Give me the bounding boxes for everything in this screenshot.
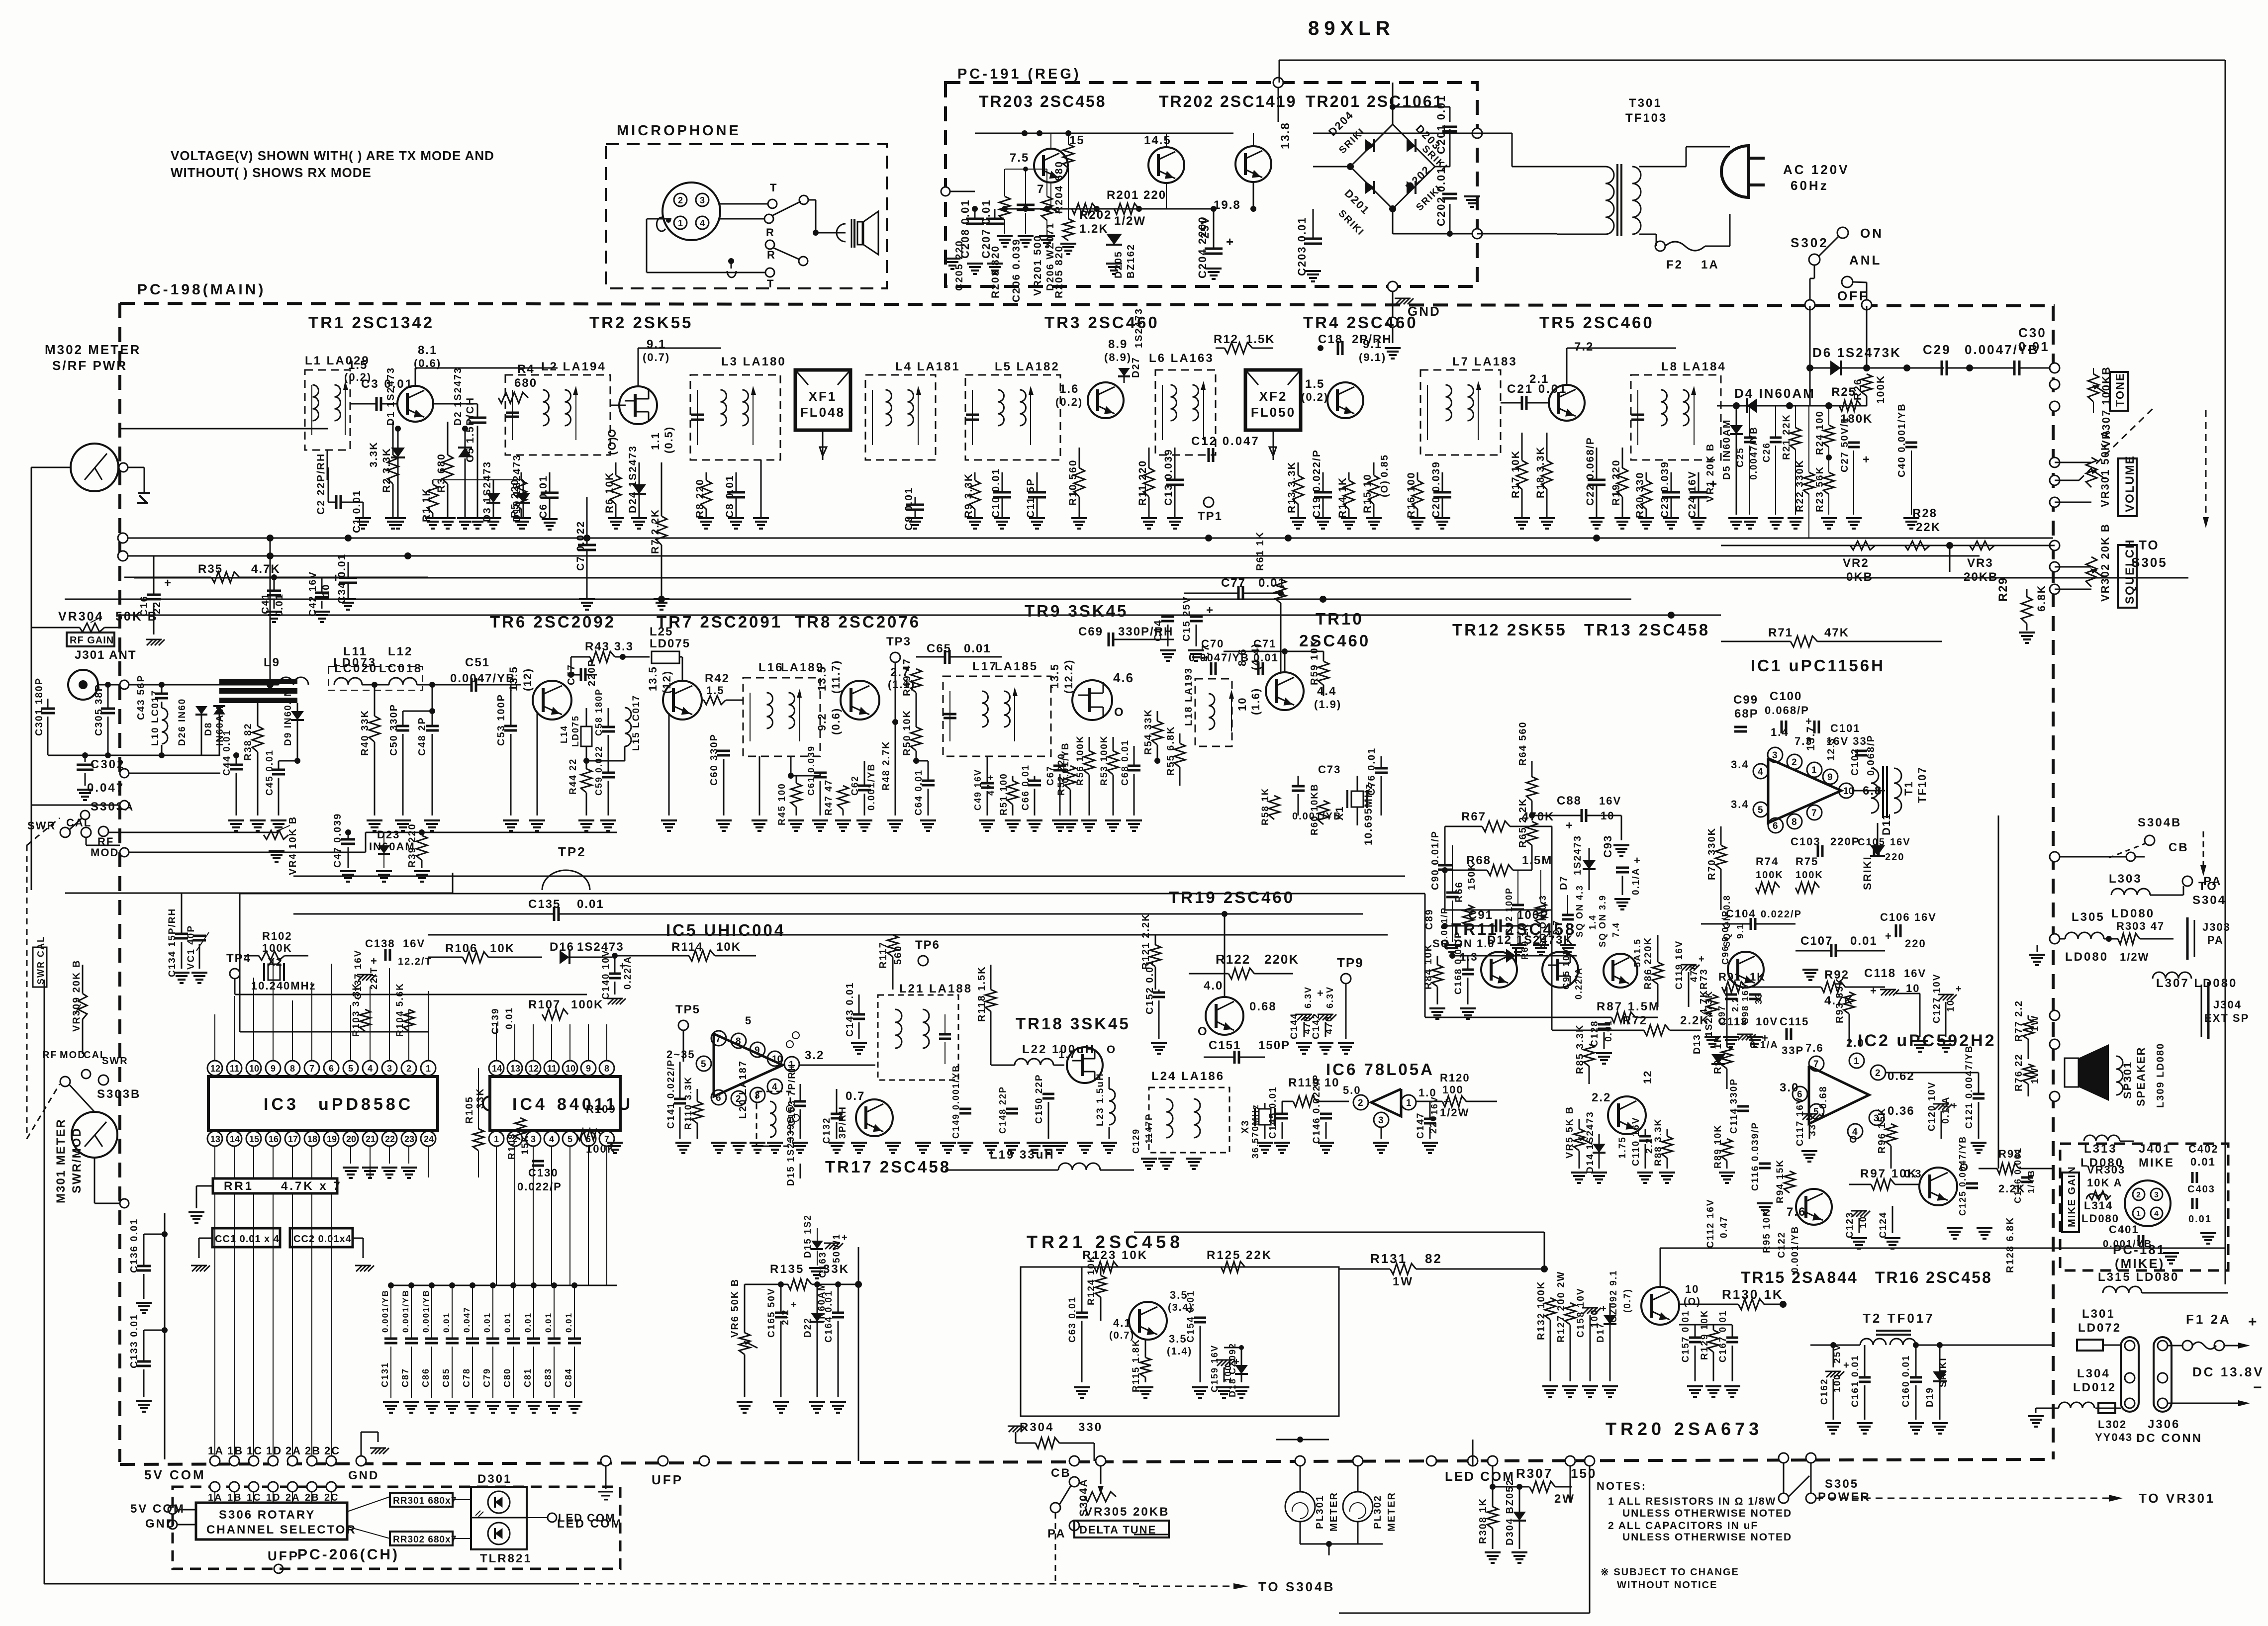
ground [774, 1143, 776, 1144]
svg-text:C51: C51 [465, 656, 490, 669]
svg-text:C2 22P/RH: C2 22P/RH [315, 453, 327, 515]
svg-text:SP301: SP301 [2121, 1061, 2134, 1099]
svg-text:C107: C107 [1800, 934, 1833, 948]
svg-text:MIKE: MIKE [2139, 1156, 2174, 1170]
svg-text:3: 3 [387, 1064, 392, 1074]
ic3 pin 6 [324, 1061, 339, 1076]
svg-text:84011U: 84011U [557, 1095, 633, 1114]
svg-text:1A: 1A [1701, 258, 1719, 271]
capacitor C87 0.001/YB [408, 1282, 414, 1288]
svg-text:J301 ANT: J301 ANT [75, 648, 137, 662]
svg-text:7: 7 [309, 1064, 314, 1074]
wire S303A rail [36, 467, 37, 805]
svg-text:36.570MHz: 36.570MHz [1250, 1104, 1260, 1159]
svg-text:TR10: TR10 [1316, 610, 1364, 628]
resistor R2 3.3K [392, 422, 394, 455]
jack J304 EXT SP [2207, 982, 2210, 1039]
capacitor C1 0.01 [363, 502, 364, 518]
svg-text:1S2473: 1S2473 [1572, 835, 1583, 875]
svg-text:C61 0.039: C61 0.039 [806, 745, 816, 796]
svg-text:R23 56K: R23 56K [1814, 466, 1825, 512]
svg-text:L314: L314 [2084, 1199, 2113, 1212]
svg-text:PA: PA [2203, 875, 2222, 888]
svg-text:C102: C102 [1850, 748, 1861, 776]
svg-text:7: 7 [1811, 808, 1817, 818]
svg-text:IC6 78L05A: IC6 78L05A [1326, 1060, 1434, 1079]
svg-text:+: + [2248, 1314, 2259, 1330]
ic4 pin 1 [489, 1131, 504, 1146]
svg-text:R44 22: R44 22 [568, 758, 578, 795]
svg-text:7.5: 7.5 [1010, 151, 1029, 165]
svg-text:L14: L14 [559, 725, 569, 743]
resistor R11 220 [1148, 448, 1150, 468]
svg-text:(MIKE): (MIKE) [2115, 1256, 2165, 1271]
wire antenna rail [120, 428, 328, 430]
svg-text:16V: 16V [1429, 1096, 1439, 1115]
svg-text:0.01: 0.01 [1258, 576, 1286, 590]
svg-text:PL301: PL301 [1315, 1495, 1325, 1529]
connector J306 b [2154, 1337, 2172, 1412]
svg-text:C63 0.01: C63 0.01 [1067, 1296, 1078, 1343]
svg-text:TP3: TP3 [886, 635, 911, 648]
wire R70 [1721, 826, 1746, 827]
test point TP1 [1204, 497, 1214, 507]
svg-text:J303: J303 [2202, 921, 2231, 933]
ic3 pin 22 [382, 1131, 397, 1146]
svg-text:5: 5 [745, 1014, 752, 1027]
svg-text:ANL: ANL [1849, 253, 1882, 268]
svg-text:R115 1.8K: R115 1.8K [1131, 1339, 1141, 1392]
svg-text:C58 180P: C58 180P [594, 688, 604, 736]
svg-text:TR5 2SC460: TR5 2SC460 [1539, 313, 1654, 332]
ic3 pin 9 [266, 1061, 281, 1076]
svg-text:R16 100: R16 100 [1406, 472, 1417, 518]
svg-text:S304: S304 [2192, 894, 2226, 907]
transistor TR14 [1608, 1096, 1646, 1134]
svg-text:C133 0.01: C133 0.01 [129, 1314, 140, 1368]
svg-text:C125 0.0047/YB: C125 0.0047/YB [1958, 1136, 1968, 1216]
svg-text:0.001/YB: 0.001/YB [1790, 1226, 1800, 1273]
svg-text:CB: CB [1051, 1466, 1071, 1480]
ic3 pin 3 [382, 1061, 397, 1076]
svg-text:D26 IN60: D26 IN60 [177, 698, 188, 746]
svg-text:S302: S302 [1791, 235, 1829, 250]
svg-text:S304A: S304A [1077, 1478, 1090, 1517]
svg-text:0.01: 0.01 [503, 1312, 512, 1333]
svg-text:C159 16V: C159 16V [1210, 1345, 1220, 1392]
svg-text:uPD858C: uPD858C [318, 1095, 413, 1114]
svg-text:R93 33K: R93 33K [1834, 977, 1845, 1023]
svg-text:22: 22 [385, 1134, 395, 1144]
bypass capacitor row C131..C84 [391, 1285, 617, 1286]
grounds tr16 [1954, 1228, 1956, 1229]
wire band3 rail 2 [240, 893, 1425, 895]
svg-text:C67: C67 [1045, 765, 1056, 786]
svg-text:4.6: 4.6 [1113, 670, 1134, 685]
svg-text:L19 33uH: L19 33uH [990, 1148, 1055, 1162]
ic1 pin 5 [1753, 802, 1768, 817]
svg-text:33K: 33K [475, 1087, 486, 1109]
svg-text:0.1/A: 0.1/A [1631, 868, 1641, 895]
svg-text:R49 47: R49 47 [902, 658, 913, 697]
svg-text:R6 10K: R6 10K [604, 472, 615, 513]
ground [1034, 1143, 1036, 1144]
svg-text:2A: 2A [285, 1445, 301, 1457]
svg-text:5: 5 [348, 1064, 353, 1074]
svg-text:+: + [332, 571, 341, 585]
grounds mike [2208, 1233, 2209, 1234]
svg-text:0.01: 0.01 [544, 1312, 553, 1333]
svg-text:(9.1): (9.1) [1359, 351, 1386, 363]
svg-text:SWR CAL: SWR CAL [36, 936, 46, 985]
svg-text:XF2: XF2 [1259, 389, 1288, 404]
crystal X1 [1351, 791, 1363, 807]
svg-text:D15 1S2: D15 1S2 [803, 1214, 813, 1258]
transistor TR17 [856, 1099, 893, 1136]
svg-text:1.4: 1.4 [1771, 726, 1789, 738]
svg-text:VR5 5K B: VR5 5K B [1564, 1106, 1575, 1159]
svg-text:7: 7 [1813, 1059, 1819, 1070]
svg-text:TF107: TF107 [1916, 766, 1928, 803]
wire meter M301 [94, 1158, 95, 1203]
svg-text:R38 82: R38 82 [243, 723, 254, 761]
svg-text:3.4: 3.4 [1731, 758, 1749, 771]
bus wire 4 [134, 577, 2188, 579]
svg-text:T: T [770, 181, 777, 194]
ic4 pin 4 [544, 1131, 559, 1146]
ic1 pin 10 [1839, 783, 1854, 798]
wire bottom rails [1472, 1440, 1474, 1466]
wire TR202 emitter [1166, 183, 1167, 209]
node lamps [1295, 1456, 1305, 1466]
svg-text:+: + [1885, 930, 1893, 942]
svg-text:2: 2 [678, 195, 683, 205]
node ledcom [1426, 1456, 1436, 1466]
svg-text:AC 120V: AC 120V [1783, 162, 1850, 177]
svg-text:LD012: LD012 [2073, 1381, 2116, 1394]
svg-text:MICROPHONE: MICROPHONE [617, 123, 741, 139]
svg-text:C76 0.01: C76 0.01 [1366, 747, 1377, 796]
ic3 pin 14 [227, 1131, 242, 1146]
svg-text:0.0047/YB: 0.0047/YB [450, 672, 515, 685]
svg-text:C163: C163 [818, 1252, 828, 1278]
svg-text:L305: L305 [2072, 910, 2105, 924]
svg-text:RR302 680x7: RR302 680x7 [393, 1535, 457, 1545]
svg-text:R114: R114 [671, 940, 703, 954]
ground [836, 1143, 838, 1144]
bus wire 1 [128, 538, 2053, 539]
svg-text:D9 IN60AM: D9 IN60AM [283, 688, 293, 746]
ic5 triangle [714, 1034, 783, 1096]
resistor R17 10K [1521, 433, 1523, 460]
wire left column [164, 1213, 166, 1459]
svg-text:L15 LC017: L15 LC017 [631, 695, 642, 751]
ic4 pin 11 [544, 1061, 559, 1076]
svg-text:S304B: S304B [2138, 816, 2181, 829]
svg-text:(0.2): (0.2) [1055, 396, 1083, 408]
svg-text:C149 0.001/YB: C149 0.001/YB [951, 1065, 961, 1139]
svg-text:220K: 220K [1264, 952, 1299, 967]
ic5 pin 7 [711, 1031, 726, 1046]
svg-text:LD080: LD080 [2111, 907, 2155, 920]
svg-text:LD080: LD080 [2065, 950, 2108, 964]
wire TR201 collector [1253, 133, 1254, 146]
wire s304b [2055, 856, 2145, 858]
svg-text:R104 5.6K: R104 5.6K [395, 983, 405, 1037]
sq transistor Q1 [1481, 952, 1517, 988]
ic3 pin 4 [363, 1061, 378, 1076]
svg-text:C162: C162 [1819, 1378, 1830, 1405]
svg-text:MIKE GAIN: MIKE GAIN [2067, 1166, 2078, 1227]
svg-text:PC-198(MAIN): PC-198(MAIN) [137, 281, 266, 298]
svg-text:12.2/T: 12.2/T [398, 956, 432, 967]
svg-text:C203 0.01: C203 0.01 [1296, 216, 1308, 276]
svg-text:L315 LD080: L315 LD080 [2098, 1270, 2179, 1284]
svg-text:19: 19 [327, 1134, 337, 1144]
svg-text:9.2: 9.2 [816, 713, 828, 731]
filter XF1 [795, 370, 850, 430]
svg-text:(0.7): (0.7) [1622, 1288, 1633, 1313]
antenna jack J301 [68, 670, 98, 700]
svg-text:(8.9): (8.9) [1104, 351, 1132, 363]
svg-text:DC 13.8V: DC 13.8V [2192, 1364, 2265, 1379]
svg-text:0.01: 0.01 [964, 642, 991, 655]
svg-text:R10 560: R10 560 [1067, 459, 1079, 506]
svg-text:47K: 47K [1824, 626, 1849, 639]
svg-text:0.01: 0.01 [577, 898, 604, 911]
svg-text:25V: 25V [1199, 216, 1211, 239]
svg-text:4.7K x 7: 4.7K x 7 [281, 1179, 342, 1193]
bus wire 3 [65, 599, 1631, 600]
svg-text:METER: METER [1386, 1492, 1397, 1532]
svg-text:3: 3 [2154, 1191, 2159, 1199]
label DELTA TUNE [1074, 1521, 1169, 1537]
wire to speaker [816, 232, 846, 234]
ic3 pin 1 [421, 1061, 436, 1076]
ic3 pin 5 [343, 1061, 358, 1076]
wire TR203 collector [1050, 133, 1051, 149]
svg-text:(1.9): (1.9) [1314, 698, 1341, 711]
svg-text:R: R [766, 226, 775, 239]
capacitor C22 0.068/P [1596, 448, 1598, 480]
svg-text:R204 680: R204 680 [1053, 161, 1065, 214]
svg-text:R3 680: R3 680 [436, 453, 447, 493]
svg-text:R12: R12 [1214, 333, 1238, 346]
svg-text:10: 10 [1685, 1283, 1699, 1295]
resistor R3 680 [447, 422, 449, 455]
ground C202 [1472, 196, 1473, 197]
svg-text:C305 38P: C305 38P [94, 684, 104, 736]
svg-text:TR1 2SC1342: TR1 2SC1342 [308, 313, 434, 332]
svg-text:TP2: TP2 [558, 844, 586, 859]
ic2 pin 2 [1871, 1065, 1886, 1080]
ic2 pin 5 [1809, 1104, 1824, 1119]
svg-text:C30: C30 [2018, 325, 2047, 340]
svg-text:1.2K: 1.2K [1079, 222, 1109, 236]
svg-text:1: 1 [678, 218, 683, 228]
wire reg top rail [975, 133, 1233, 134]
svg-text:PA: PA [1047, 1527, 1066, 1540]
svg-text:UNLESS OTHERWISE NOTED: UNLESS OTHERWISE NOTED [1622, 1532, 1792, 1543]
svg-text:C142: C142 [1311, 1013, 1322, 1039]
svg-text:C10 0.01: C10 0.01 [990, 468, 1002, 518]
svg-text:3.2: 3.2 [805, 1049, 824, 1062]
svg-text:TONE: TONE [2114, 372, 2126, 407]
svg-text:C87: C87 [400, 1368, 410, 1387]
svg-text:C59 0.022: C59 0.022 [594, 745, 604, 796]
svg-text:C26: C26 [1762, 442, 1772, 462]
ic3 pin 12 [207, 1061, 222, 1076]
svg-text:L24 LA186: L24 LA186 [1151, 1070, 1225, 1083]
svg-text:10: 10 [772, 1054, 782, 1065]
svg-text:R67: R67 [1461, 810, 1486, 823]
svg-text:1.4: 1.4 [1588, 914, 1598, 930]
solid page-bottom wire [44, 1583, 572, 1585]
switch S303B [60, 1077, 70, 1086]
svg-text:6: 6 [1773, 821, 1778, 831]
svg-text:16V: 16V [1904, 967, 1926, 980]
svg-text:220: 220 [1885, 852, 1904, 863]
svg-text:1: 1 [2136, 1210, 2141, 1218]
svg-text:2: 2 [406, 1064, 411, 1074]
transistor TR6 [533, 681, 571, 720]
AC plug [1721, 146, 1749, 197]
svg-text:0.01: 0.01 [442, 1312, 451, 1333]
ground [800, 1143, 801, 1144]
wire lower antenna rail [48, 755, 220, 756]
ground CC1 [199, 1238, 212, 1239]
svg-text:4.1: 4.1 [1113, 1317, 1132, 1329]
svg-text:R25: R25 [1831, 385, 1856, 399]
svg-text:(1.6): (1.6) [1249, 688, 1262, 715]
svg-text:R91: R91 [1718, 971, 1741, 983]
ground [858, 1143, 860, 1144]
svg-text:IC5 UHIC004: IC5 UHIC004 [666, 921, 785, 939]
svg-text:C23 0.039: C23 0.039 [1659, 461, 1671, 518]
svg-text:150K: 150K [1466, 862, 1477, 890]
svg-text:8.9: 8.9 [1108, 338, 1128, 351]
svg-text:R42: R42 [705, 672, 730, 685]
resistor R8 220 [706, 472, 707, 480]
svg-text:R39 220: R39 220 [407, 823, 418, 868]
svg-text:10: 10 [249, 1064, 259, 1074]
svg-text:R303 47: R303 47 [2116, 920, 2165, 932]
wire tr19 rail [1155, 934, 1388, 935]
svg-text:0.85: 0.85 [1379, 454, 1390, 477]
svg-text:TR19 2SC460: TR19 2SC460 [1169, 888, 1295, 906]
lamp PL301 [1285, 1492, 1315, 1522]
ic IC4 84011U [490, 1077, 620, 1130]
wire delta lines [1074, 1526, 1075, 1544]
svg-text:R105: R105 [464, 1096, 475, 1124]
svg-text:+: + [371, 955, 378, 967]
mic plug dot [728, 258, 734, 264]
svg-text:1147P: 1147P [1144, 1113, 1154, 1144]
svg-text:T: T [767, 277, 774, 290]
svg-text:R94 15K: R94 15K [1775, 1159, 1786, 1203]
svg-text:TR12 2SK55: TR12 2SK55 [1452, 621, 1567, 639]
svg-text:R120: R120 [1440, 1072, 1470, 1084]
bridge rectifier D201-D204 [1350, 124, 1393, 167]
wire rr1 lead [331, 1193, 332, 1208]
svg-text:TP9: TP9 [1337, 955, 1364, 970]
svg-text:0.01: 0.01 [482, 1312, 492, 1333]
svg-text:J306: J306 [2148, 1418, 2180, 1431]
svg-text:S305: S305 [1825, 1477, 1859, 1491]
ic1 pin 1 [1807, 762, 1822, 777]
ic4 pin 2 [507, 1131, 522, 1146]
svg-text:TR15 2SA844: TR15 2SA844 [1741, 1268, 1858, 1286]
svg-text:1W: 1W [2030, 1067, 2041, 1084]
dashed S304A drop [1055, 1513, 1056, 1584]
diode D2 1S2473 [462, 426, 468, 432]
svg-text:3.3K: 3.3K [368, 442, 379, 467]
svg-text:0.047: 0.047 [87, 781, 124, 795]
svg-text:(O): (O) [1684, 1296, 1701, 1307]
resistor R9 3.3K [974, 472, 976, 480]
svg-text:TO VR301: TO VR301 [2139, 1491, 2215, 1506]
wire minus out [2168, 1403, 2238, 1404]
svg-text:1W: 1W [2030, 1015, 2041, 1032]
svg-text:C1 0.01: C1 0.01 [351, 489, 363, 533]
svg-text:D8: D8 [203, 722, 214, 736]
svg-text:150P: 150P [1258, 1039, 1290, 1052]
svg-text:R55 6.8K: R55 6.8K [1165, 726, 1176, 776]
svg-text:+: + [1566, 819, 1574, 832]
nodes on board edge [2050, 457, 2060, 467]
svg-text:C24 16V: C24 16V [1687, 470, 1698, 518]
ic5 pin 10 [767, 1051, 782, 1066]
svg-text:0.01: 0.01 [564, 1312, 573, 1333]
arrow TO S304 [2203, 831, 2204, 865]
svg-text:13.5: 13.5 [507, 666, 520, 691]
svg-text:PC-206(CH): PC-206(CH) [297, 1546, 399, 1563]
svg-text:D15 1S2339G: D15 1S2339G [786, 1115, 796, 1186]
svg-text:C201 0.01: C201 0.01 [1435, 94, 1447, 154]
svg-text:D13: D13 [1692, 1034, 1702, 1054]
svg-text:5V COM: 5V COM [144, 1467, 206, 1482]
svg-text:R8 220: R8 220 [694, 478, 706, 518]
resistor R10 560 [1079, 448, 1080, 468]
svg-text:C88: C88 [1557, 794, 1582, 808]
svg-text:8: 8 [290, 1064, 295, 1074]
resistor R20 330 [1646, 472, 1647, 480]
svg-text:R103 3.3K: R103 3.3K [351, 983, 362, 1037]
capacitor C23 0.039 [1671, 472, 1672, 492]
svg-text:C22 0.068/P: C22 0.068/P [1585, 437, 1596, 506]
svg-text:TR8 2SC2076: TR8 2SC2076 [795, 613, 921, 631]
svg-text:(11.7): (11.7) [830, 660, 842, 694]
svg-text:C29: C29 [1923, 342, 1951, 357]
svg-text:9.1: 9.1 [1735, 923, 1745, 939]
svg-text:R90 1K: R90 1K [1712, 1034, 1723, 1074]
svg-text:C301 180P: C301 180P [34, 677, 45, 736]
svg-text:C73: C73 [1318, 763, 1341, 776]
svg-text:C11 5P: C11 5P [1025, 478, 1037, 518]
svg-text:(O): (O) [606, 436, 618, 455]
svg-text:13.8: 13.8 [1279, 122, 1292, 149]
svg-text:6.3V: 6.3V [1303, 986, 1313, 1008]
capacitor C11 5P [1037, 472, 1038, 492]
svg-text:0.01: 0.01 [1850, 934, 1878, 948]
ic5 pin 8 [731, 1033, 746, 1048]
svg-text:VR305 20KB: VR305 20KB [1084, 1505, 1169, 1519]
svg-text:0.1/A: 0.1/A [1941, 1096, 1951, 1124]
ic3 pin 18 [304, 1131, 319, 1146]
wire IC5 top [571, 914, 572, 935]
transformer T1 TF107 [1871, 768, 1879, 813]
capacitor C20 0.039 [1442, 472, 1443, 492]
